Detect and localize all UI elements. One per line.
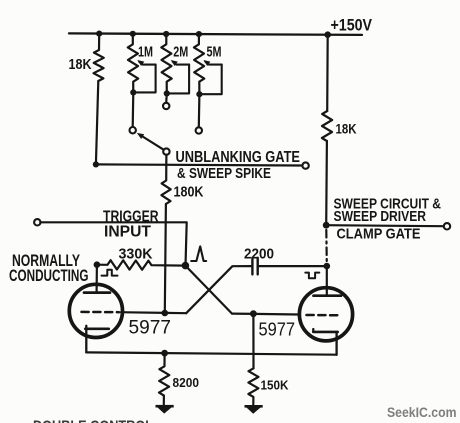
switch selector arm (140, 135, 164, 150)
wire rail to 18K right (326, 35, 329, 111)
resistor 18K left (94, 34, 104, 81)
svg-text:330K: 330K (119, 247, 154, 263)
svg-text:SWEEP DRIVER: SWEEP DRIVER (334, 208, 427, 225)
node left plate / 330K (94, 261, 101, 268)
wire V1 plate lead (95, 265, 98, 292)
wire 180K to left grid (165, 204, 166, 313)
terminal trigger input (34, 219, 40, 225)
wiper arrow 2M (173, 62, 189, 65)
wire 1M stub to contact (132, 92, 135, 126)
svg-text:& SWEEP SPIKE: & SWEEP SPIKE (177, 165, 271, 182)
svg-text:5977: 5977 (259, 320, 296, 340)
terminal contact 1M (130, 127, 136, 133)
svg-text:UNBLANKING GATE: UNBLANKING GATE (176, 149, 301, 166)
terminal switch pivot (163, 148, 169, 154)
wire wiper loop 5M (199, 65, 221, 95)
wire clamp gate line (326, 225, 443, 226)
node rail / 1M (130, 31, 136, 37)
wire +150V supply rail (69, 33, 362, 35)
svg-text:CLAMP GATE: CLAMP GATE (337, 226, 421, 243)
wire wiper loop 1M (133, 65, 155, 93)
wire trigger input (40, 222, 186, 265)
wire cathode bus (86, 352, 336, 354)
tube V2 5977 envelope (299, 288, 352, 341)
svg-text:8200: 8200 (173, 376, 200, 390)
capacitor 2200 plates (251, 258, 253, 275)
node bus / 8200 (161, 350, 168, 357)
resistor 150K (248, 368, 258, 404)
waveform spike at coupling node (191, 246, 206, 261)
resistor 18K right (322, 111, 332, 141)
waveform negative pulse at right plate (305, 273, 319, 279)
node left grid / 180K (162, 310, 169, 317)
resistor 330K (97, 260, 185, 270)
tube V1 grid (dashed) (82, 311, 120, 314)
tube V2 cathode (313, 331, 337, 334)
ground under 8200 (156, 405, 174, 408)
tube V2 plate (314, 294, 342, 297)
wire 2M stub to contact (165, 93, 168, 102)
svg-text:INPUT: INPUT (104, 224, 151, 241)
tube V1 plate (84, 291, 110, 294)
tube V1 5977 envelope (69, 284, 122, 337)
wire unblanking gate line (96, 164, 302, 165)
svg-text:2M: 2M (173, 44, 188, 61)
wire 2200 to right plate node (259, 265, 327, 267)
terminal contact 5M (196, 127, 202, 133)
node rail / 5M (196, 31, 202, 37)
terminal clamp gate (444, 223, 450, 229)
node 5M bottom junction (196, 91, 202, 97)
node 2M bottom junction (164, 90, 170, 96)
wire coupling diagonal to 2200 (186, 266, 251, 313)
resistor 8200 (159, 353, 169, 404)
node unblanking / 18K left (93, 161, 99, 167)
wiper arrow 1M (139, 62, 155, 65)
wire V2 plate lead (326, 266, 328, 294)
wire left grid line (121, 312, 186, 313)
wire 18K left to unblanking line (96, 81, 98, 165)
svg-text:18K: 18K (336, 122, 357, 137)
node right grid / 150K (250, 310, 257, 317)
svg-text:180K: 180K (174, 185, 204, 201)
wire coupling diagonal to right grid (185, 266, 232, 314)
wire 18K right to clamp node (325, 141, 328, 225)
svg-text:1M: 1M (138, 44, 153, 61)
svg-text:CONDUCTING: CONDUCTING (9, 267, 89, 285)
svg-text:5977: 5977 (129, 317, 172, 339)
svg-text:SeekIC.com: SeekIC.com (387, 405, 457, 420)
wire switch pivot lead (165, 155, 167, 165)
wiper arrow 5M (205, 62, 221, 65)
node rail / 2M (163, 31, 169, 37)
ground under 150K (245, 405, 263, 408)
wire right grid line (232, 313, 299, 316)
svg-text:DOUBLE CONTROL: DOUBLE CONTROL (33, 418, 153, 423)
wire 150K column (252, 314, 254, 369)
node clamp gate junction (323, 222, 330, 229)
svg-text:2200: 2200 (244, 247, 274, 263)
svg-text:150K: 150K (261, 379, 289, 393)
terminal contact 2M (163, 103, 169, 109)
potentiometer 2M (161, 34, 171, 93)
wire wiper loop 2M (167, 65, 189, 94)
svg-text:18K: 18K (69, 56, 92, 73)
wire dashed link clamp node to V2 plate (325, 230, 328, 264)
terminal unblanking gate (302, 162, 308, 168)
potentiometer 5M (194, 34, 204, 94)
svg-text:+150V: +150V (331, 16, 373, 35)
svg-text:5M: 5M (207, 44, 222, 61)
node right plate / 2200 (324, 263, 331, 270)
node 1M bottom junction (130, 89, 136, 95)
wire 5M stub to contact (198, 94, 201, 127)
node trigger / 330K / coupling junction (182, 262, 190, 270)
tube V1 cathode (85, 327, 109, 330)
node rail / 18K right (324, 31, 331, 38)
tube V2 grid (dashed) (307, 314, 342, 317)
potentiometer 1M (128, 34, 138, 93)
resistor 180K (161, 165, 170, 204)
waveform pulse at left plate (102, 270, 118, 276)
node rail / 18K left (96, 30, 102, 36)
